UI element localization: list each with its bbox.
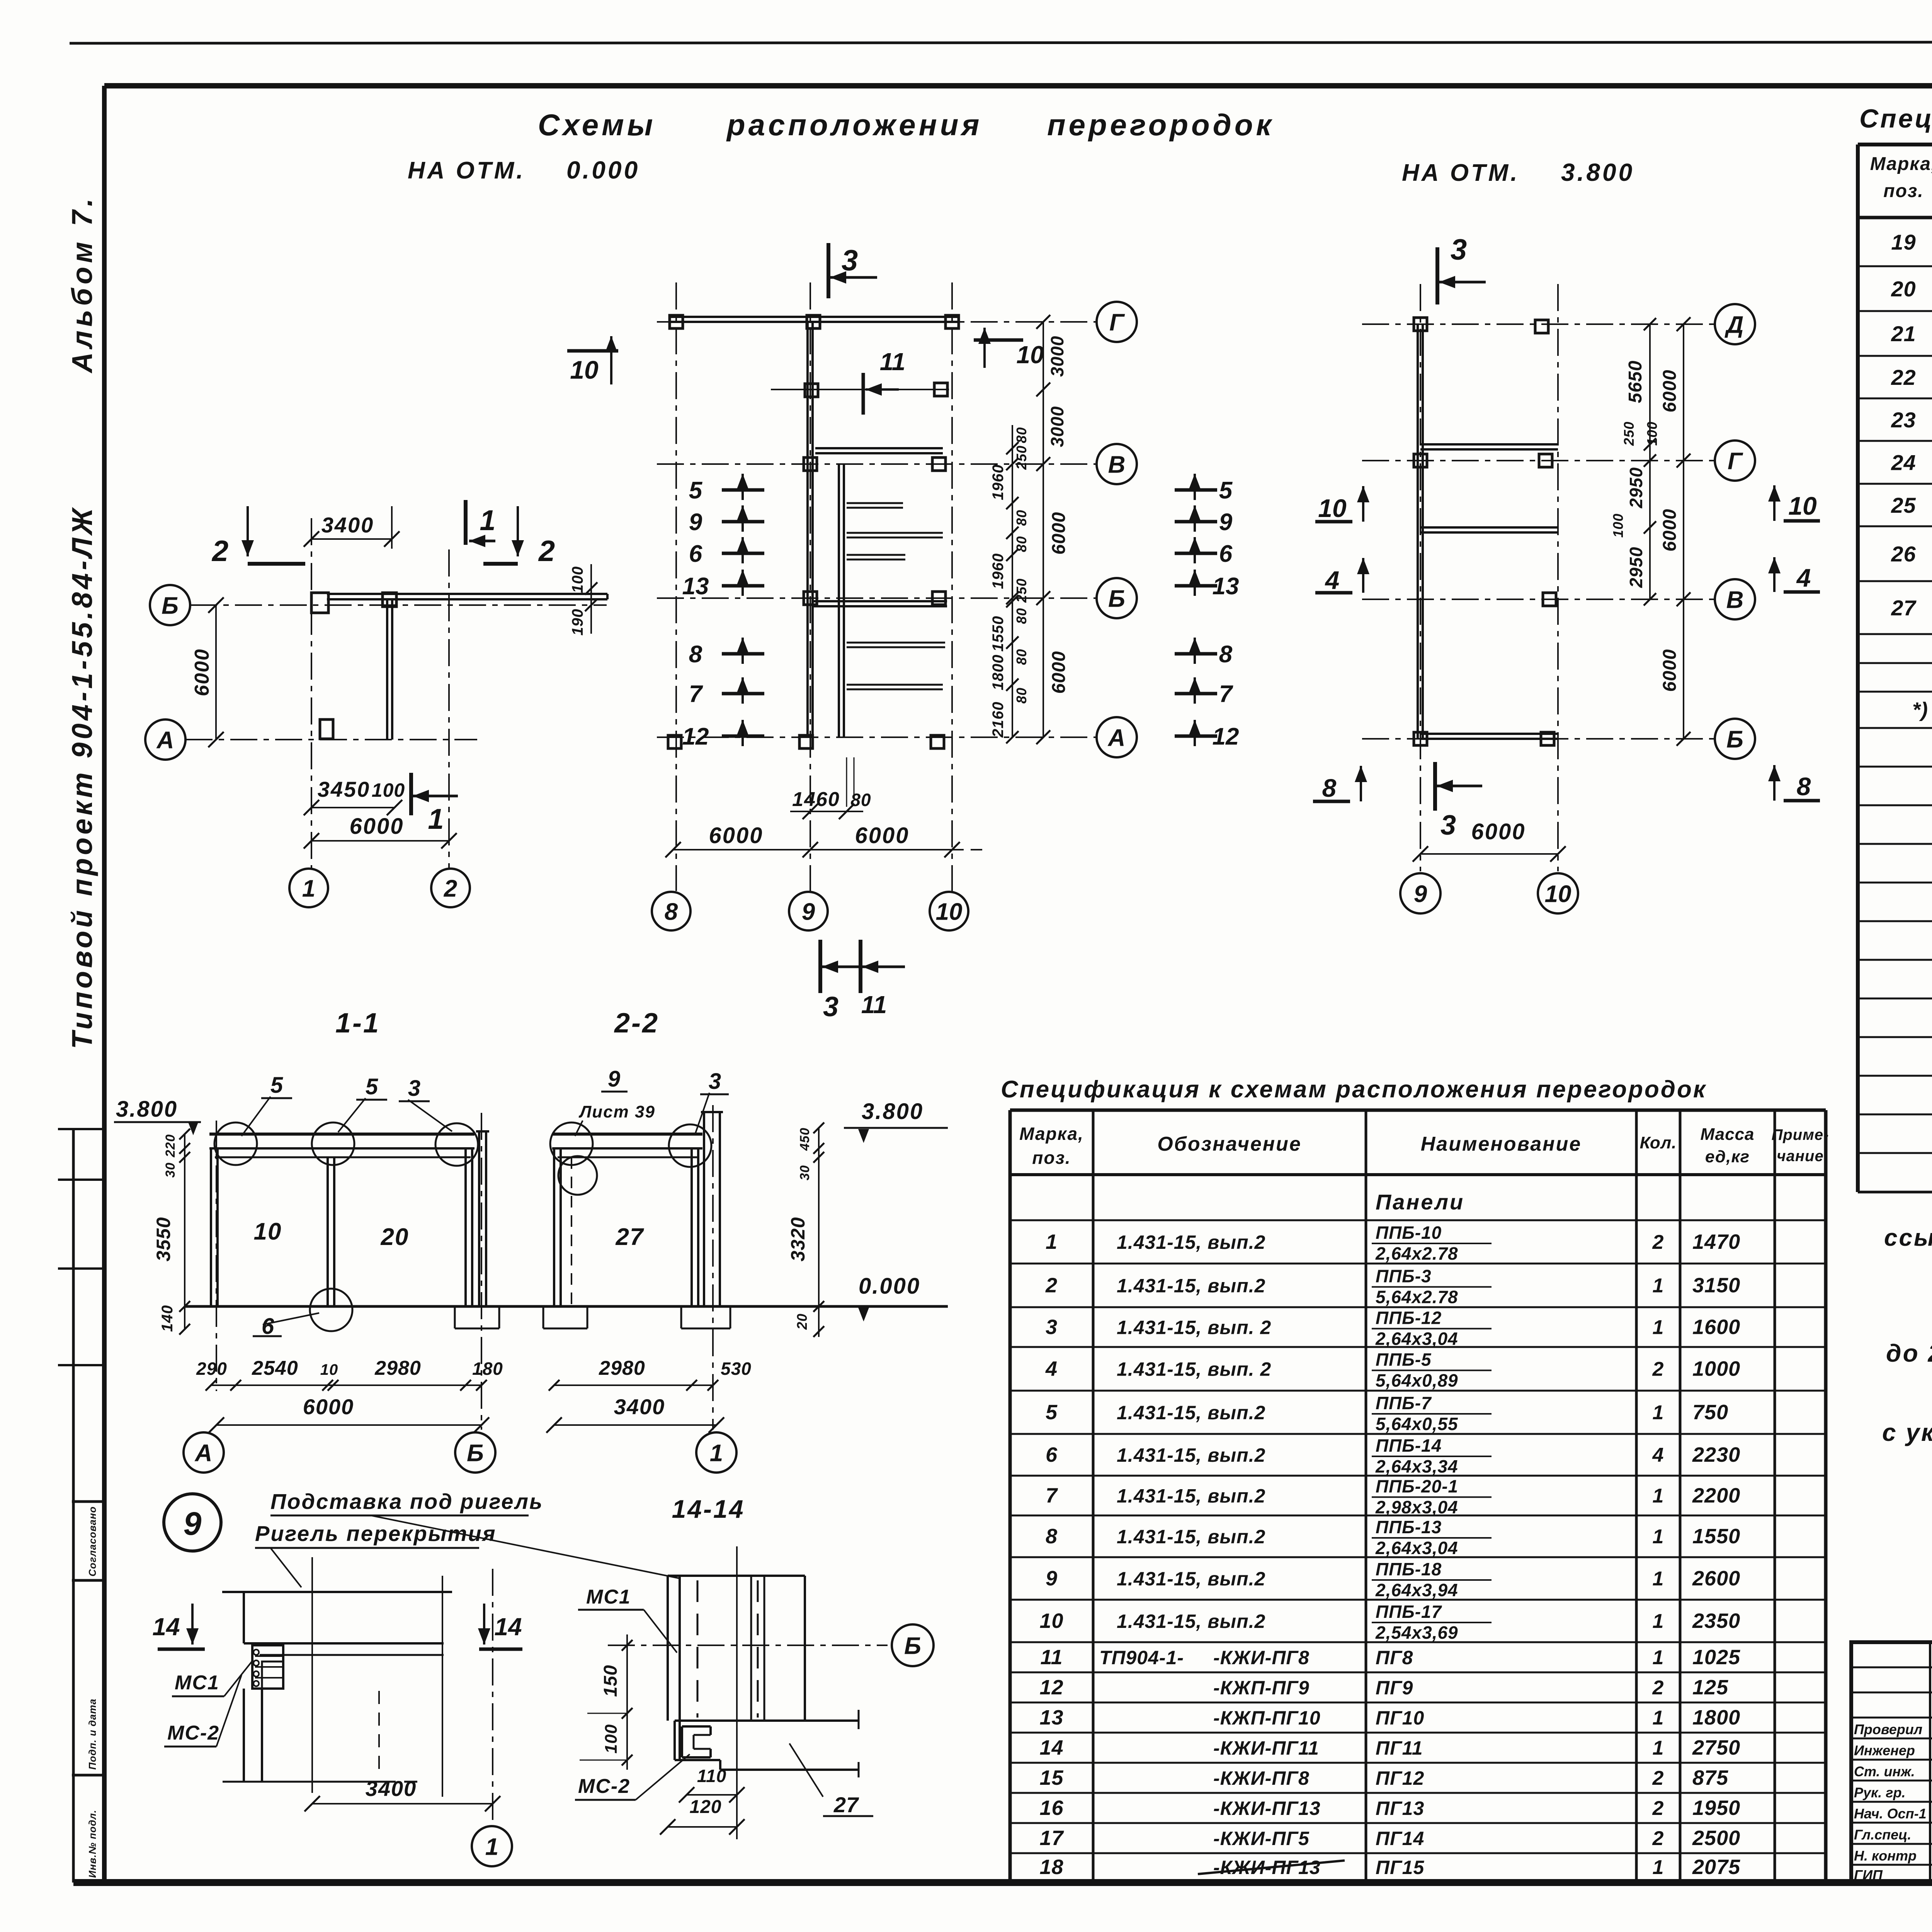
svg-text:1: 1	[1653, 1275, 1664, 1297]
svg-text:ППБ-20-1: ППБ-20-1	[1376, 1476, 1458, 1497]
paper edge (scan top)	[70, 42, 1932, 43]
svg-text:3: 3	[1046, 1316, 1058, 1339]
svg-text:3400: 3400	[366, 1776, 417, 1801]
axis line 10	[951, 282, 953, 891]
elevation 3.800 right	[844, 1099, 948, 1143]
axis line A	[657, 736, 1097, 738]
svg-text:100: 100	[1644, 421, 1660, 446]
notes text	[1882, 1189, 1932, 1446]
detail 9 drawing: girder	[222, 1592, 452, 1655]
svg-text:Инв.№ подл.: Инв.№ подл.	[87, 1810, 98, 1878]
svg-text:Спецификация к схемам располож: Спецификация к схемам расположения перег…	[1001, 1076, 1707, 1103]
plan axes 8-10: axis line 8	[675, 282, 677, 891]
svg-text:-КЖИ-ПГ13: -КЖИ-ПГ13	[1213, 1798, 1321, 1819]
svg-text:-КЖИ-ПГ11: -КЖИ-ПГ11	[1213, 1737, 1319, 1759]
detail 9: MC-2 label	[164, 1675, 241, 1747]
axis line G	[657, 321, 1097, 323]
svg-text:перегородок: перегородок	[1047, 108, 1274, 142]
axis bubble B	[1097, 578, 1137, 618]
squares on axis B	[804, 592, 817, 605]
svg-text:Г: Г	[1728, 448, 1743, 474]
svg-text:1460: 1460	[792, 788, 840, 811]
plan2 outer dim chain 6000s	[1036, 315, 1069, 744]
svg-text:80: 80	[1014, 427, 1029, 443]
junction square on axis B	[383, 593, 396, 607]
svg-text:6000: 6000	[1660, 509, 1680, 552]
svg-text:ППБ-18: ППБ-18	[1376, 1559, 1442, 1579]
svg-text:В: В	[1108, 451, 1126, 478]
svg-text:12: 12	[1213, 723, 1239, 750]
section mark 1 (top)	[466, 500, 496, 547]
axis bubble A	[145, 719, 185, 760]
detail bubble 9	[164, 1494, 221, 1551]
svg-text:750: 750	[1692, 1401, 1728, 1424]
svg-text:3400: 3400	[321, 513, 374, 537]
middle table grid	[1010, 1110, 1826, 1881]
svg-text:-КЖИ-ПГ8: -КЖИ-ПГ8	[1213, 1767, 1310, 1789]
detail 14-14: MC1 label	[578, 1586, 677, 1653]
svg-text:2980: 2980	[374, 1357, 421, 1379]
partition mark 6 (left)	[689, 537, 764, 567]
vertical partition on axis 9	[1417, 324, 1419, 739]
detail 14-14: B axis dash-dot	[608, 1645, 888, 1646]
svg-text:МС1: МС1	[586, 1586, 631, 1608]
svg-text:80: 80	[1014, 649, 1029, 665]
svg-text:Панели: Панели	[1376, 1190, 1464, 1214]
second vertical partition right of axis 9	[838, 464, 840, 737]
svg-text:2: 2	[444, 875, 457, 902]
svg-text:100: 100	[372, 779, 405, 801]
section mark 11 (inside top bay)	[863, 348, 905, 415]
svg-text:10: 10	[320, 1361, 338, 1378]
svg-text:Альбом 7.: Альбом 7.	[66, 195, 98, 374]
svg-text:НА ОТМ.: НА ОТМ.	[1402, 160, 1520, 186]
svg-text:3.800: 3.800	[1561, 158, 1634, 186]
partition stub 2 (mark 9/6)	[847, 532, 943, 534]
svg-text:20: 20	[381, 1224, 409, 1250]
svg-text:расположения: расположения	[726, 108, 982, 142]
svg-text:5,64х0,55: 5,64х0,55	[1376, 1414, 1458, 1434]
svg-text:1: 1	[428, 803, 444, 835]
svg-text:Подп. и дата: Подп. и дата	[87, 1699, 98, 1770]
section 1-1: node circles	[214, 1122, 257, 1165]
dim 190/100 small at right of axis B	[569, 564, 597, 636]
mark 4 (left)	[1315, 558, 1369, 594]
svg-text:120: 120	[689, 1797, 721, 1817]
svg-text:2500: 2500	[1692, 1827, 1740, 1850]
svg-text:1.431-15, вып.2: 1.431-15, вып.2	[1117, 1231, 1265, 1253]
svg-text:ГИП: ГИП	[1854, 1867, 1883, 1883]
axis bubble 1 (detail 9)	[472, 1826, 512, 1866]
svg-text:Б: Б	[162, 592, 179, 619]
svg-text:2950: 2950	[1626, 547, 1646, 588]
svg-text:11: 11	[880, 348, 905, 376]
svg-text:19: 19	[1891, 230, 1916, 254]
svg-text:1: 1	[1653, 1316, 1664, 1339]
svg-text:110: 110	[697, 1766, 726, 1786]
svg-text:2200: 2200	[1692, 1484, 1740, 1507]
svg-text:80: 80	[1014, 510, 1029, 526]
section 2-2: node label 9 / sheet39	[575, 1066, 655, 1136]
partition between B and A no.2	[847, 684, 943, 686]
svg-text:6000: 6000	[1660, 649, 1680, 692]
left margin strip	[58, 1128, 104, 1883]
svg-text:1800: 1800	[1692, 1706, 1740, 1729]
svg-text:ПГ12: ПГ12	[1376, 1767, 1424, 1789]
svg-text:2,64х2.78: 2,64х2.78	[1375, 1243, 1458, 1264]
detail 9: bottom dim 3400	[304, 1776, 500, 1811]
svg-text:6000: 6000	[709, 823, 763, 848]
partition mark 9 (right)	[1175, 505, 1233, 536]
title block outer	[1851, 1642, 1932, 1883]
svg-text:Ригель перекрытия: Ригель перекрытия	[255, 1521, 497, 1546]
mark 4 (right)	[1768, 557, 1820, 592]
svg-text:А: А	[1107, 724, 1126, 751]
svg-text:220: 220	[163, 1134, 178, 1158]
svg-text:3: 3	[823, 992, 838, 1022]
dim 3450 / 100 (bottom)	[304, 777, 405, 815]
axis bubble V	[1097, 444, 1137, 484]
svg-text:6000: 6000	[1049, 651, 1069, 694]
partition above axis V	[815, 447, 943, 449]
svg-text:14: 14	[1039, 1736, 1063, 1759]
svg-text:1.431-15, вып.2: 1.431-15, вып.2	[1117, 1402, 1265, 1423]
axis line B (horizontal)	[190, 604, 607, 606]
svg-text:1550: 1550	[1692, 1525, 1740, 1548]
svg-text:1: 1	[1653, 1646, 1664, 1669]
svg-text:Рук. гр.: Рук. гр.	[1854, 1785, 1906, 1801]
right table connecting item rows	[1912, 698, 1932, 1107]
section mark 3 (top)	[1437, 233, 1486, 304]
svg-text:13: 13	[1213, 573, 1239, 600]
plan2 inner dim chain (right)	[990, 425, 1029, 743]
partition along axis B	[813, 600, 947, 602]
svg-text:250: 250	[1014, 445, 1029, 470]
svg-text:Проверил: Проверил	[1854, 1721, 1922, 1737]
axis line B	[1362, 738, 1715, 740]
svg-text:Обозначение: Обозначение	[1157, 1133, 1302, 1155]
svg-text:Б: Б	[467, 1440, 484, 1466]
partition mark 7 (right)	[1175, 677, 1233, 707]
svg-text:1: 1	[1653, 1856, 1664, 1879]
svg-text:2: 2	[1045, 1274, 1058, 1297]
section 2-2: right dim chain	[787, 1122, 824, 1337]
column squares on axis G	[670, 315, 683, 328]
svg-text:ПГ9: ПГ9	[1376, 1677, 1413, 1699]
partition between B and A no.1	[847, 642, 945, 644]
axis line A (horizontal)	[185, 739, 477, 740]
middle table rows 1-10	[1039, 1223, 1740, 1643]
axis line V	[1362, 599, 1715, 600]
svg-text:Схемы: Схемы	[538, 108, 656, 142]
svg-text:12: 12	[1039, 1676, 1063, 1699]
detail 9: mark 14 (left)	[152, 1604, 205, 1649]
axis bubble 9	[789, 892, 828, 930]
detail 9: mark 14 (right)	[478, 1604, 522, 1649]
mark 10 (left)	[567, 336, 618, 384]
svg-text:875: 875	[1692, 1766, 1728, 1789]
axis bubble 1 (section)	[696, 1432, 736, 1473]
svg-text:ПГ11: ПГ11	[1376, 1737, 1423, 1759]
detail 9: extension and axis lines	[312, 1557, 493, 1826]
axis bubble 1	[289, 869, 328, 907]
svg-text:Гл.спец.: Гл.спец.	[1854, 1827, 1911, 1843]
svg-text:4: 4	[1652, 1444, 1664, 1466]
svg-text:3: 3	[709, 1069, 721, 1094]
svg-text:ППБ-7: ППБ-7	[1376, 1393, 1432, 1413]
svg-text:-КЖИ-ПГ8: -КЖИ-ПГ8	[1213, 1647, 1310, 1668]
partition mark 7 (left)	[689, 677, 764, 707]
svg-text:2: 2	[1652, 1231, 1664, 1253]
svg-text:ППБ-3: ППБ-3	[1376, 1266, 1432, 1286]
svg-text:1: 1	[1653, 1485, 1664, 1507]
svg-text:ППБ-12: ППБ-12	[1376, 1308, 1442, 1328]
svg-text:18: 18	[1039, 1855, 1063, 1879]
svg-text:с указаниями серии 1.431: с указаниями серии 1.431-15 вып.1.	[1882, 1418, 1932, 1446]
svg-text:А: А	[156, 727, 174, 753]
svg-text:9: 9	[802, 898, 815, 925]
detail 14-14: MC-2 connector profile	[682, 1726, 711, 1757]
svg-text:17: 17	[1039, 1827, 1064, 1850]
svg-text:2980: 2980	[599, 1357, 645, 1379]
svg-text:Н. контр: Н. контр	[1854, 1848, 1917, 1864]
svg-text:9: 9	[689, 509, 702, 536]
mark 10 (left)	[1315, 486, 1369, 522]
partition stub 1 (mark 5)	[847, 502, 903, 504]
svg-text:1.431-15, вып.2: 1.431-15, вып.2	[1117, 1526, 1265, 1548]
svg-text:-КЖИ-ПГ5: -КЖИ-ПГ5	[1213, 1828, 1310, 1849]
section 2-2: left wall	[553, 1148, 555, 1306]
svg-text:НА ОТМ.: НА ОТМ.	[408, 157, 526, 184]
axis line G	[1362, 460, 1715, 461]
svg-text:Типовой проект 904-1-55.84-Л: Типовой проект 904-1-55.84-ЛЖ	[66, 505, 98, 1049]
partition between G and V	[1420, 526, 1558, 529]
svg-text:24: 24	[1891, 451, 1916, 475]
svg-text:4: 4	[1325, 566, 1340, 594]
svg-text:2540: 2540	[252, 1357, 298, 1379]
squares on intermediate axis	[805, 384, 818, 397]
axis line B	[657, 597, 1097, 599]
svg-text:80: 80	[1014, 687, 1029, 704]
partition stub 3 (mark 13)	[847, 554, 905, 556]
right table grid	[1858, 145, 1932, 1644]
svg-text:6000: 6000	[1660, 370, 1680, 413]
detail 9: support block under girder	[252, 1645, 283, 1689]
svg-text:3000: 3000	[1047, 406, 1067, 447]
svg-text:30: 30	[163, 1162, 178, 1178]
section 1-1: right column	[476, 1131, 489, 1306]
svg-text:2,98х3,04: 2,98х3,04	[1375, 1497, 1458, 1517]
svg-text:до 200 мм пробить по мест: до 200 мм пробить по месту.	[1886, 1339, 1932, 1367]
partition mark 6 (right)	[1175, 537, 1233, 567]
svg-text:22: 22	[1891, 365, 1916, 389]
svg-text:1.431-15, вып. 2: 1.431-15, вып. 2	[1117, 1359, 1271, 1380]
axis bubble B (section)	[455, 1432, 495, 1473]
svg-text:2075: 2075	[1692, 1855, 1740, 1879]
column at axis 1/B	[311, 593, 328, 613]
elevation 3.800 left	[114, 1097, 201, 1135]
svg-text:140: 140	[159, 1305, 176, 1332]
vertical partition wall to axis A	[386, 599, 388, 740]
dim 3400 (top)	[304, 506, 400, 549]
svg-text:6: 6	[1046, 1443, 1058, 1466]
right table row 27	[1891, 589, 1932, 632]
svg-text:ТП904-1-: ТП904-1-	[1099, 1647, 1184, 1668]
column squares plan3	[1414, 318, 1427, 331]
svg-text:2: 2	[1652, 1677, 1664, 1699]
svg-text:0.000: 0.000	[859, 1274, 920, 1299]
svg-text:1025: 1025	[1692, 1646, 1740, 1669]
svg-text:1: 1	[1653, 1568, 1664, 1590]
svg-text:9: 9	[1046, 1567, 1058, 1590]
svg-text:2: 2	[211, 535, 228, 568]
svg-text:Инженер: Инженер	[1854, 1743, 1915, 1759]
partition mark 5 (left)	[689, 474, 764, 504]
svg-text:4: 4	[1796, 563, 1811, 592]
svg-text:2600: 2600	[1692, 1567, 1740, 1590]
svg-text:100: 100	[1610, 513, 1626, 537]
mark 10 (right)	[974, 328, 1044, 369]
right table headers	[1870, 154, 1932, 205]
svg-text:6000: 6000	[855, 823, 909, 848]
svg-text:15: 15	[1039, 1766, 1063, 1789]
svg-text:Спецификация к схемам располож: Спецификация к схемам расположения перег…	[1859, 104, 1932, 133]
svg-text:14: 14	[152, 1613, 180, 1641]
svg-text:5: 5	[689, 477, 703, 504]
svg-text:7: 7	[1046, 1484, 1058, 1507]
partition along axis G	[668, 316, 958, 318]
partition along axis B	[1420, 733, 1558, 735]
svg-text:1: 1	[1653, 1401, 1664, 1424]
svg-text:2350: 2350	[1692, 1609, 1740, 1633]
axis line 9	[810, 282, 811, 891]
svg-text:9: 9	[1414, 881, 1427, 907]
svg-text:12: 12	[682, 723, 709, 750]
section 1-1: top beam	[209, 1134, 474, 1157]
section 2-2: bottom dims	[546, 1357, 752, 1433]
section 1-1: node labels 5 5 3	[241, 1073, 452, 1136]
axis bubble 9	[1400, 873, 1440, 913]
svg-text:2: 2	[1652, 1797, 1664, 1820]
svg-text:26: 26	[1891, 542, 1916, 566]
svg-text:10: 10	[1545, 881, 1571, 907]
svg-text:250: 250	[1014, 578, 1029, 603]
svg-text:16: 16	[1039, 1796, 1063, 1820]
svg-text:МС1: МС1	[175, 1672, 219, 1694]
axis bubble 10	[1538, 873, 1578, 913]
svg-text:2750: 2750	[1692, 1736, 1740, 1759]
svg-text:Нач. Осп-1: Нач. Осп-1	[1854, 1806, 1927, 1821]
axis bubble B	[1715, 719, 1755, 759]
svg-text:1960: 1960	[990, 464, 1007, 500]
svg-text:1-1: 1-1	[335, 1008, 380, 1039]
svg-text:1.431-15, вып.2: 1.431-15, вып.2	[1117, 1568, 1265, 1590]
svg-text:1.431-15, вып.2: 1.431-15, вып.2	[1117, 1485, 1265, 1507]
svg-text:100: 100	[569, 566, 586, 593]
plan3 outer dim chain 6000s	[1660, 317, 1690, 746]
svg-text:10: 10	[936, 898, 963, 925]
svg-text:9: 9	[184, 1505, 202, 1542]
svg-text:1.431-15, вып.2: 1.431-15, вып.2	[1117, 1444, 1265, 1466]
axis bubble V	[1715, 579, 1755, 619]
svg-text:2: 2	[538, 535, 555, 568]
detail 9: MC1 label	[172, 1660, 253, 1696]
axis bubble B (detail 14-14)	[892, 1624, 934, 1666]
svg-text:3320: 3320	[787, 1217, 809, 1261]
svg-text:-КЖП-ПГ9: -КЖП-ПГ9	[1213, 1677, 1310, 1699]
svg-text:8: 8	[1322, 774, 1337, 802]
svg-text:11: 11	[1040, 1646, 1063, 1669]
svg-text:10: 10	[1039, 1609, 1063, 1633]
svg-text:7: 7	[1219, 681, 1233, 707]
svg-text:5: 5	[1046, 1401, 1058, 1424]
svg-text:Д: Д	[1725, 311, 1744, 338]
svg-text:10: 10	[570, 355, 599, 384]
mark 8 (bottom right)	[1768, 765, 1820, 801]
detail 14-14: MC-2 label	[575, 1754, 690, 1800]
svg-text:Кол.: Кол.	[1640, 1133, 1677, 1152]
dim 6000 6000 (bottom)	[665, 823, 988, 857]
axis bubble 2	[431, 869, 470, 907]
svg-text:5,64х2.78: 5,64х2.78	[1376, 1287, 1458, 1307]
svg-text:2: 2	[1652, 1827, 1664, 1850]
svg-text:5: 5	[270, 1073, 283, 1098]
mark 8 (bottom left)	[1313, 766, 1367, 802]
svg-text:3400: 3400	[614, 1395, 665, 1419]
svg-text:В: В	[1726, 587, 1744, 613]
svg-text:14-14: 14-14	[672, 1495, 745, 1523]
elevation 0.000 right	[858, 1274, 920, 1321]
section 1-1: node label 6	[253, 1313, 319, 1339]
svg-text:9: 9	[1219, 509, 1233, 536]
section 1-1: left dim chain	[153, 1129, 190, 1335]
svg-text:Подставка под ригель: Подставка под ригель	[270, 1489, 543, 1514]
svg-text:1: 1	[480, 504, 495, 536]
svg-text:3550: 3550	[153, 1217, 174, 1261]
svg-text:1: 1	[485, 1833, 498, 1860]
axis bubble G	[1097, 302, 1137, 342]
svg-text:6: 6	[1219, 541, 1233, 567]
svg-text:Б: Б	[1108, 585, 1125, 612]
svg-text:ссылок на листы, приняты п: ссылок на листы, приняты по серии 1.431-…	[1884, 1225, 1932, 1251]
svg-text:21: 21	[1891, 321, 1916, 346]
intermediate axis at 3000 below G	[771, 389, 949, 390]
axis line V	[657, 463, 1097, 465]
svg-text:2: 2	[1652, 1358, 1664, 1381]
axis bubble D	[1715, 304, 1755, 344]
svg-text:2,64х3,04: 2,64х3,04	[1375, 1538, 1458, 1558]
svg-text:1: 1	[1653, 1610, 1664, 1633]
svg-text:10: 10	[254, 1218, 282, 1245]
svg-text:1950: 1950	[1692, 1796, 1740, 1820]
section 2-2: right wall	[690, 1148, 693, 1306]
partition mark 12 (left)	[682, 720, 764, 750]
detail 9: floor line	[223, 1781, 419, 1783]
axis line 10	[1557, 284, 1559, 871]
column squares on axis A	[668, 735, 681, 748]
svg-text:1: 1	[1653, 1526, 1664, 1548]
leader text: floor girder	[255, 1521, 497, 1587]
svg-text:5: 5	[366, 1074, 378, 1099]
svg-text:Марка,: Марка,	[1019, 1124, 1084, 1144]
svg-text:25: 25	[1891, 493, 1916, 517]
svg-text:2160: 2160	[990, 702, 1007, 738]
svg-text:6: 6	[689, 541, 702, 567]
section marks 3 and 11 (bottom)	[820, 940, 905, 1022]
svg-text:Ст. инж.: Ст. инж.	[1854, 1764, 1915, 1779]
svg-text:6000: 6000	[1049, 512, 1069, 555]
svg-text:0.000: 0.000	[566, 156, 640, 184]
